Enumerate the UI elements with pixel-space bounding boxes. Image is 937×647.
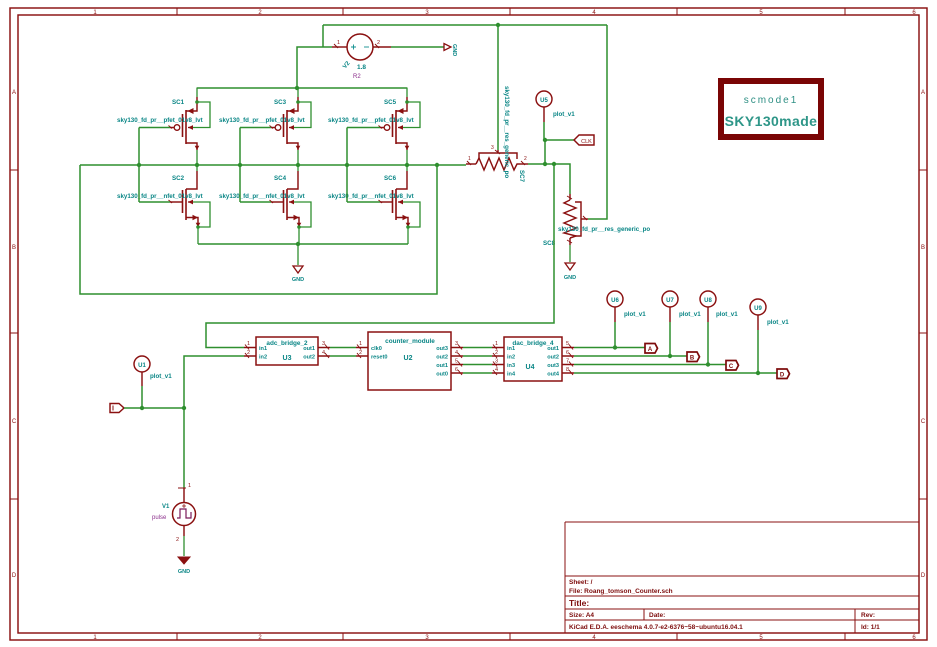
svg-text:7: 7: [566, 359, 569, 365]
wire U5 to CLK node: [544, 122, 545, 164]
svg-text:out1: out1: [547, 346, 559, 352]
junction CLK node: [543, 138, 547, 142]
svg-text:A: A: [12, 90, 16, 96]
logo box scmode1 / SKY130made: [721, 81, 821, 137]
svg-text:out3: out3: [547, 363, 559, 369]
svg-text:6: 6: [566, 350, 569, 356]
svg-text:sky130_fd_pr__res_generic_po: sky130_fd_pr__res_generic_po: [503, 86, 510, 178]
component U4 dac_bridge_4: [504, 337, 562, 381]
svg-text:1: 1: [188, 483, 191, 489]
probe U8: [700, 291, 738, 365]
svg-text:sky130_fd_pr__pfet_01v8_lvt: sky130_fd_pr__pfet_01v8_lvt: [117, 117, 203, 124]
svg-text:D: D: [780, 373, 785, 379]
svg-text:counter_module: counter_module: [385, 338, 435, 345]
junction U1 node: [140, 406, 144, 410]
svg-text:out0: out0: [436, 372, 448, 378]
probe U7: [662, 291, 701, 356]
svg-text:in1: in1: [507, 346, 515, 352]
svg-text:plot_v1: plot_v1: [679, 311, 701, 318]
wire top horizontal rail: [323, 25, 607, 47]
sheet pin input left: [110, 404, 124, 413]
wire input node: [124, 407, 184, 409]
svg-text:out2: out2: [303, 355, 315, 361]
voltage source V1: [173, 488, 196, 536]
wire U4 out4 to label D: [574, 372, 777, 374]
ground GND below SC8: [564, 263, 576, 281]
svg-text:sky130_fd_pr__nfet_01v8_lvt: sky130_fd_pr__nfet_01v8_lvt: [117, 193, 203, 200]
transistor SC3: [270, 88, 312, 166]
svg-text:clk0: clk0: [371, 346, 382, 352]
svg-text:SC5: SC5: [384, 99, 397, 106]
svg-text:U9: U9: [754, 306, 762, 312]
wire U3 out1 to U2 clk0: [330, 347, 356, 349]
svg-text:out3: out3: [436, 346, 448, 352]
hierarchical label C: [726, 361, 739, 371]
wire gate drop column 2: [239, 128, 241, 203]
svg-text:5: 5: [566, 341, 569, 347]
wire gate drop column 3: [346, 128, 348, 203]
junction out4/U9: [756, 371, 760, 375]
svg-text:in1: in1: [259, 346, 267, 352]
pin numbers U4: [495, 341, 569, 373]
wire gate column1 nmos: [139, 201, 170, 203]
pin numbers U2: [359, 341, 458, 373]
svg-text:B: B: [690, 356, 695, 362]
svg-text:Date:: Date:: [649, 612, 665, 619]
hierarchical label D: [777, 369, 790, 379]
svg-text:reset0: reset0: [371, 355, 387, 361]
svg-text:A: A: [648, 347, 653, 353]
junction on top rail at SC7 drop: [496, 23, 500, 27]
wire gate column3 nmos: [347, 201, 380, 203]
wire gate column1 pmos: [139, 127, 170, 129]
wire gate column3 pmos: [347, 127, 380, 129]
svg-text:GND: GND: [451, 44, 457, 56]
junction supply rail / V2 drop: [295, 86, 299, 90]
junction out2/U7: [668, 354, 672, 358]
svg-text:3: 3: [455, 341, 458, 347]
svg-text:GND: GND: [564, 275, 576, 281]
svg-text:1: 1: [495, 341, 498, 347]
svg-text:5: 5: [455, 359, 458, 365]
svg-text:out2: out2: [547, 355, 559, 361]
wire SC8 body to top rail: [588, 25, 607, 219]
wire middle output rail: [80, 164, 466, 166]
wire V2 output to GND arrow: [391, 46, 444, 48]
svg-text:sky130_fd_pr__nfet_01v8_lvt: sky130_fd_pr__nfet_01v8_lvt: [219, 193, 305, 200]
svg-text:plot_v1: plot_v1: [553, 111, 575, 118]
pin stubs U3: [244, 345, 330, 359]
transistor SC4: [270, 165, 312, 244]
svg-text:3: 3: [495, 359, 498, 365]
svg-text:in2: in2: [507, 355, 515, 361]
pin stubs U4: [492, 345, 574, 376]
svg-text:plot_v1: plot_v1: [716, 311, 738, 318]
svg-text:B: B: [921, 245, 925, 251]
svg-text:2: 2: [176, 537, 179, 543]
svg-text:out2: out2: [436, 355, 448, 361]
wire U1 drop: [141, 386, 143, 408]
svg-text:1: 1: [247, 341, 250, 347]
svg-text:1: 1: [359, 341, 362, 347]
svg-text:1: 1: [468, 156, 471, 162]
wire SC7 body to top rail: [497, 25, 499, 150]
wire gate column2 nmos: [240, 201, 271, 203]
svg-text:Title:: Title:: [569, 598, 589, 608]
wire U4 out1 to label A: [574, 347, 645, 349]
svg-text:4: 4: [495, 367, 498, 373]
svg-text:1.8: 1.8: [357, 64, 366, 71]
svg-text:U6: U6: [611, 298, 619, 304]
component U3 adc_bridge_2: [256, 337, 318, 365]
svg-text:2: 2: [247, 350, 250, 356]
svg-text:sky130_fd_pr__pfet_01v8_lvt: sky130_fd_pr__pfet_01v8_lvt: [328, 117, 414, 124]
probe U5: [536, 91, 575, 122]
ground GND right of V2: [444, 44, 457, 57]
svg-text:U1: U1: [138, 363, 146, 369]
svg-text:Size: A4: Size: A4: [569, 612, 594, 619]
svg-text:SC1: SC1: [172, 99, 185, 106]
svg-text:SC6: SC6: [384, 175, 397, 182]
svg-text:1: 1: [337, 40, 340, 46]
svg-text:sky130_fd_pr__pfet_01v8_lvt: sky130_fd_pr__pfet_01v8_lvt: [219, 117, 305, 124]
wire U4 out3 to label C: [574, 364, 726, 366]
resistor SC7: [466, 150, 528, 170]
svg-text:U7: U7: [666, 298, 674, 304]
title block: [565, 522, 919, 633]
title block texts: [569, 579, 880, 631]
wire PMOS supply rail: [197, 87, 407, 89]
svg-text:CLK: CLK: [581, 139, 592, 145]
wire SC8 bottom to ground: [569, 245, 571, 262]
wires U2 outputs to U4 inputs: [463, 348, 492, 374]
svg-text:SC2: SC2: [172, 175, 185, 182]
wire V2 left to top rail drop: [297, 47, 332, 88]
probe U6: [607, 291, 646, 348]
svg-text:B: B: [12, 245, 16, 251]
svg-text:C: C: [921, 419, 926, 425]
svg-text:4: 4: [455, 350, 458, 356]
svg-text:in3: in3: [507, 363, 515, 369]
wire U3 out2 to U2 reset0: [330, 355, 356, 357]
svg-text:plot_v1: plot_v1: [150, 373, 172, 380]
svg-text:SC7: SC7: [518, 170, 525, 183]
svg-text:U4: U4: [526, 364, 535, 371]
svg-text:R2: R2: [353, 74, 361, 80]
svg-text:C: C: [729, 364, 734, 370]
svg-text:A: A: [921, 90, 925, 96]
transistor SC6: [379, 165, 421, 244]
wire ring feedback loop: [80, 165, 437, 294]
svg-text:plot_v1: plot_v1: [767, 319, 789, 326]
svg-text:out1: out1: [303, 346, 315, 352]
svg-text:8: 8: [566, 367, 569, 373]
svg-text:6: 6: [455, 367, 458, 373]
svg-text:V1: V1: [162, 504, 170, 510]
svg-text:File: Roang_tomson_Counter.sch: File: Roang_tomson_Counter.sch: [569, 588, 673, 595]
svg-text:KiCad E.D.A. eeschema 4.0.7-e: KiCad E.D.A. eeschema 4.0.7-e2-6376~58~u…: [569, 624, 743, 631]
junction SC7 output / U5 drop: [543, 162, 547, 166]
wire oscillator output down to U3: [206, 164, 554, 348]
wire input node down to V1: [183, 408, 185, 488]
probe U1: [134, 356, 172, 386]
svg-text:C: C: [12, 419, 17, 425]
wire CLK node to label: [545, 139, 574, 141]
svg-text:in2: in2: [259, 355, 267, 361]
svg-text:SC4: SC4: [274, 175, 287, 182]
svg-text:SC3: SC3: [274, 99, 287, 106]
svg-text:plot_v1: plot_v1: [624, 311, 646, 318]
svg-text:GND: GND: [292, 277, 304, 283]
wire V1 to ground: [183, 536, 185, 556]
junctions on output rail: [137, 163, 439, 167]
junction out3/U8: [706, 362, 710, 366]
hierarchical label CLK: [574, 135, 594, 145]
svg-text:pulse: pulse: [152, 515, 167, 521]
hierarchical label B: [687, 352, 700, 362]
junction input node / V1: [182, 406, 186, 410]
svg-text:adc_bridge_2: adc_bridge_2: [266, 340, 308, 347]
svg-text:Id: 1/1: Id: 1/1: [861, 624, 880, 631]
svg-text:out4: out4: [547, 372, 560, 378]
svg-text:D: D: [12, 573, 17, 579]
pin numbers U3: [247, 341, 325, 356]
resistor SC8: [564, 194, 588, 245]
component U2 counter_module: [368, 332, 451, 390]
svg-text:2: 2: [495, 350, 498, 356]
wire gate column2 pmos: [240, 127, 271, 129]
svg-text:U2: U2: [404, 355, 413, 362]
svg-text:in4: in4: [507, 372, 516, 378]
value labels of V2: [342, 60, 366, 80]
svg-text:D: D: [921, 573, 926, 579]
svg-text:scmode1: scmode1: [744, 95, 799, 106]
svg-text:4: 4: [322, 350, 325, 356]
junction ground rail center: [296, 242, 300, 246]
junction out1/U6: [613, 345, 617, 349]
svg-text:sky130_fd_pr__nfet_01v8_lvt: sky130_fd_pr__nfet_01v8_lvt: [328, 193, 414, 200]
wire SC7 output: [528, 164, 570, 194]
voltage source V2: [332, 34, 391, 60]
pin stubs U2: [356, 345, 463, 376]
svg-text:sky130_fd_pr__res_generic_po: sky130_fd_pr__res_generic_po: [558, 226, 650, 233]
svg-text:U8: U8: [704, 298, 712, 304]
ground GND below ring: [292, 244, 304, 283]
svg-text:2: 2: [377, 40, 380, 46]
transistor SC2: [169, 165, 211, 244]
ground GND below V1: [178, 557, 190, 575]
transistor SC1: [169, 88, 211, 166]
svg-text:3: 3: [491, 145, 494, 151]
wire U4 out2 to label B: [574, 355, 687, 357]
svg-text:U3: U3: [283, 355, 292, 362]
svg-text:Rev:: Rev:: [861, 612, 875, 619]
junction SC7 output / counter drop: [552, 162, 556, 166]
svg-text:U5: U5: [540, 98, 548, 104]
svg-text:SKY130made: SKY130made: [725, 113, 818, 129]
wire gate drop column 1: [138, 128, 140, 203]
svg-text:Sheet: /: Sheet: /: [569, 579, 593, 586]
hierarchical label A: [645, 344, 658, 354]
svg-text:2: 2: [359, 350, 362, 356]
svg-text:3: 3: [322, 341, 325, 347]
svg-text:GND: GND: [178, 569, 190, 575]
svg-text:2: 2: [524, 156, 527, 162]
probe U9: [750, 299, 789, 373]
transistor SC5: [379, 88, 421, 166]
wire input node up to U3 in2: [184, 356, 244, 408]
svg-text:out1: out1: [436, 363, 448, 369]
wire NMOS ground rail: [198, 243, 408, 245]
